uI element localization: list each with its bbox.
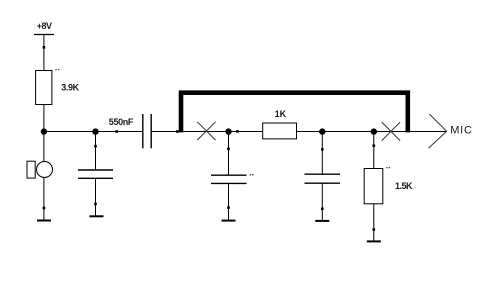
capacitor C1 xyxy=(78,170,113,178)
pin-end dot on main wire left of C2 xyxy=(115,130,118,133)
resistor R3 1.5K body xyxy=(364,169,383,204)
junction node E xyxy=(371,128,377,134)
svg-text:+8V: +8V xyxy=(37,21,52,31)
wire node C to C3 top xyxy=(228,132,230,176)
wire C4 bottom to ground xyxy=(321,183,323,221)
no-connect cross X1 xyxy=(197,122,215,140)
series capacitor C2 550nF xyxy=(143,114,151,148)
pin-end dot right of node C xyxy=(236,130,239,133)
wire power bar to R1 top xyxy=(43,35,45,71)
ground under C1 xyxy=(90,215,104,217)
pin-end dot above R3 ground xyxy=(373,228,376,231)
power rail bar +8V xyxy=(34,34,54,36)
svg-text:1K: 1K xyxy=(275,109,287,119)
pin-end dot above C1 ground xyxy=(94,203,97,206)
capacitor C3 xyxy=(211,175,247,183)
wire R3 bottom to ground xyxy=(373,204,375,242)
ground under C4 xyxy=(315,220,329,222)
svg-text:3.9K: 3.9K xyxy=(61,82,79,92)
pin-end dot left of shield bracket xyxy=(176,130,179,133)
ground under microphone xyxy=(37,220,51,222)
pin-end dot below node D xyxy=(321,148,324,151)
pin-end dot above C4 ground xyxy=(321,208,324,211)
pin-end dot below node C xyxy=(227,148,230,151)
no-connect cross X2 xyxy=(382,122,400,141)
thick shield wire bracket xyxy=(181,93,408,133)
pin-end dot on power wire xyxy=(43,46,46,49)
pin-end dot below node E xyxy=(373,144,376,147)
pin-end dot below node B xyxy=(94,145,97,148)
wire node E to R3 top xyxy=(373,132,375,169)
junction node D xyxy=(319,128,325,134)
svg-text:1.5K: 1.5K xyxy=(395,181,413,191)
wire C1 bottom to ground xyxy=(95,178,97,216)
junction node A xyxy=(41,128,47,134)
resistor R1 3.9K body xyxy=(36,71,52,105)
label marks near C3 xyxy=(250,174,254,175)
ground under R3 xyxy=(367,240,381,242)
pin-end dot above mic ground xyxy=(43,207,46,210)
resistor R2 1K body xyxy=(263,123,297,139)
wire node A down to microphone xyxy=(43,132,45,162)
label marks near R1 xyxy=(55,69,59,70)
junction node B xyxy=(92,128,98,134)
wire R1 bottom to node A xyxy=(43,105,45,132)
svg-text:550nF: 550nF xyxy=(109,117,134,127)
wire node D to C4 top xyxy=(321,132,323,175)
ground under C3 xyxy=(222,220,236,222)
label marks near R3 xyxy=(386,167,390,168)
capacitor C4 xyxy=(305,174,341,183)
main horizontal wire right section xyxy=(151,131,446,133)
svg-text:MIC: MIC xyxy=(450,124,473,136)
microphone MK1 xyxy=(27,161,53,178)
wire node B to C1 top xyxy=(95,132,97,171)
pin-end dot above C3 ground xyxy=(227,206,230,209)
wire microphone to ground xyxy=(43,178,45,221)
wire C3 bottom to ground xyxy=(228,183,230,220)
junction node C xyxy=(225,128,231,134)
main horizontal wire left section xyxy=(44,131,143,133)
output port arrow MIC xyxy=(429,114,447,148)
